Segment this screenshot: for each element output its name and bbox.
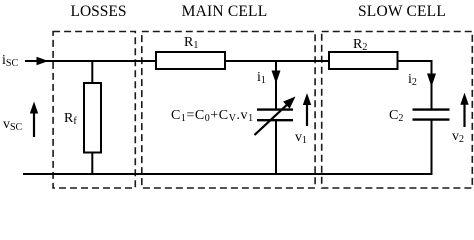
wire Rf branch bottom — [91, 153, 93, 176]
current arrow i2 — [427, 74, 436, 88]
svg-text:SLOW CELL: SLOW CELL — [358, 3, 446, 20]
capacitor C2 top plate — [413, 108, 450, 110]
dashed box LOSSES — [53, 32, 135, 189]
voltage arrow v2 — [460, 93, 468, 127]
wire bottom rail — [23, 173, 433, 175]
resistor R1 — [156, 52, 225, 69]
current arrow iSC — [25, 57, 49, 65]
variable capacitor C1 top plate — [257, 108, 293, 110]
svg-text:LOSSES: LOSSES — [71, 3, 127, 20]
current arrow i1 — [272, 71, 281, 84]
svg-text:MAIN CELL: MAIN CELL — [182, 3, 268, 20]
wire Rf branch top — [91, 60, 93, 84]
wire C1 branch bottom — [275, 120, 277, 175]
wire C2 branch bottom — [431, 120, 433, 175]
wire top rail middle (R1 to R2) — [226, 60, 329, 62]
voltage arrow vSC — [30, 102, 38, 138]
dashed box MAIN CELL — [142, 32, 315, 189]
resistor Rf — [84, 83, 101, 153]
voltage arrow v1 — [303, 93, 311, 126]
wire R2 to C2 corner — [398, 61, 432, 110]
variable capacitor arrow — [255, 97, 296, 136]
wire top rail left (input to R1) — [46, 60, 156, 62]
wire C1 branch top — [275, 60, 277, 110]
variable capacitor C1 bottom plate — [257, 119, 293, 121]
capacitor C2 bottom plate — [413, 118, 450, 120]
resistor R2 — [329, 52, 398, 69]
dashed box SLOW CELL — [322, 32, 473, 189]
